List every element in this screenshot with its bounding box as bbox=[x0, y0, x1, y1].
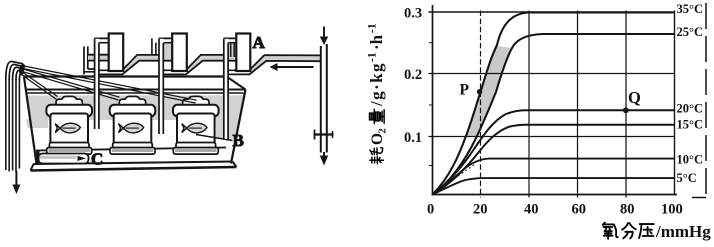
pipe entry arrow bbox=[320, 27, 328, 46]
dashed figure right border bbox=[705, 3, 707, 198]
text labels chart bbox=[404, 6, 683, 218]
glyph 量 bbox=[370, 109, 385, 123]
tank base band top bbox=[34, 162, 233, 165]
cylinder 3 bbox=[236, 34, 250, 72]
tank right wall bbox=[231, 90, 246, 164]
x axis title: 氧分压/mmHg bbox=[603, 223, 654, 239]
unit3 top connector bbox=[224, 38, 237, 42]
vertical gridline 40 bbox=[528, 11, 530, 198]
temperature labels bbox=[677, 2, 704, 185]
svg-text:O: O bbox=[369, 133, 386, 145]
tank front rim line 2 bbox=[28, 92, 244, 94]
vertical gridline 80 bbox=[625, 11, 627, 198]
glyph 压 bbox=[639, 224, 654, 238]
svg-text:35°C: 35°C bbox=[677, 2, 704, 16]
jar 1 bbox=[46, 96, 92, 154]
minor tick 0.05 bbox=[429, 165, 433, 167]
curve 25C bbox=[433, 34, 675, 195]
svg-text:2: 2 bbox=[378, 128, 389, 133]
curve 5C bbox=[433, 178, 675, 194]
vertical gridline 20 bbox=[480, 11, 482, 198]
left bend knot arcs bbox=[6, 61, 23, 80]
svg-text:60: 60 bbox=[572, 202, 587, 218]
shaded band between 35 and 25 curves bbox=[466, 46, 512, 137]
svg-text:0.2: 0.2 bbox=[404, 67, 422, 83]
svg-text:/g·kg: /g·kg bbox=[367, 62, 386, 107]
horizontal gridline 0.3 bbox=[429, 11, 675, 13]
siphon diagonal to jar 3 bbox=[22, 66, 197, 104]
jar 2 bbox=[110, 96, 156, 154]
manifold seg2 fill bbox=[187, 56, 237, 74]
tank front rim line 1 bbox=[27, 89, 246, 91]
point Q bbox=[623, 107, 629, 113]
elbow under cylinder 1 bbox=[99, 70, 123, 74]
tank wall / tube junction dark mark bbox=[36, 151, 39, 165]
svg-text:-1: -1 bbox=[367, 23, 379, 33]
svg-text:·h: ·h bbox=[367, 34, 386, 50]
siphon diagonal to jar 2 bbox=[22, 69, 120, 101]
tank water fill bbox=[26, 95, 244, 138]
inflow left arrow bbox=[270, 63, 314, 71]
knot blob bbox=[18, 63, 26, 75]
manifold seg2 bbox=[186, 55, 237, 75]
tank base band bottom bbox=[31, 167, 237, 171]
manifold seg0 fill bbox=[88, 56, 108, 61]
drop tube 2 bbox=[159, 39, 164, 134]
svg-text:0: 0 bbox=[427, 202, 434, 218]
unit1 top connector bbox=[94, 38, 108, 42]
drop tube 3 bbox=[224, 39, 229, 139]
curve 10C bbox=[433, 159, 675, 195]
dotted helper near origin bbox=[440, 164, 476, 189]
manifold seg1 fill bbox=[123, 56, 172, 74]
cylinder 2 bbox=[172, 34, 187, 72]
siphon diagonal to jar 1 bbox=[21, 72, 58, 100]
unit2 gray block bbox=[163, 43, 172, 59]
jar 3 bbox=[173, 96, 219, 154]
svg-text:20: 20 bbox=[473, 202, 488, 218]
svg-text:100: 100 bbox=[661, 202, 683, 218]
svg-text:A: A bbox=[253, 33, 266, 52]
svg-text:-1: -1 bbox=[367, 52, 379, 62]
svg-text:80: 80 bbox=[620, 202, 635, 218]
horizontal gridline 0.2 bbox=[429, 73, 675, 75]
base band left end bbox=[31, 164, 34, 171]
tank left wall bbox=[24, 77, 37, 164]
svg-text:40: 40 bbox=[524, 202, 539, 218]
svg-text:C: C bbox=[91, 150, 103, 169]
label B callout bbox=[196, 135, 233, 141]
minor tick 0.15 bbox=[429, 104, 433, 106]
right vertical pipe bbox=[321, 44, 327, 153]
unit3 short tube bbox=[231, 43, 235, 57]
y axis title group (rotated) bbox=[367, 23, 389, 163]
left down bundle bbox=[6, 79, 20, 172]
curve 35C bbox=[433, 13, 675, 195]
manifold left cap bbox=[84, 47, 94, 75]
svg-text:20°C: 20°C bbox=[677, 102, 704, 116]
vertical gridline 60 bbox=[577, 11, 579, 198]
tank inner floor line bbox=[36, 148, 226, 151]
minor tick 0.25 bbox=[429, 42, 433, 44]
svg-text:0.1: 0.1 bbox=[404, 130, 422, 146]
x axis bbox=[432, 194, 678, 196]
horizontal gridline 0.1 bbox=[429, 136, 675, 138]
svg-text:B: B bbox=[233, 131, 244, 150]
manifold seg3 fill bbox=[250, 56, 321, 74]
vertical gridline 100 / right edge bbox=[674, 11, 676, 195]
glyph 耗 bbox=[370, 148, 384, 164]
drop tube 1 bbox=[94, 39, 99, 129]
elbow under cylinder 2 bbox=[163, 70, 187, 74]
svg-text:Q: Q bbox=[628, 88, 641, 107]
unit3 gray block bbox=[228, 43, 236, 59]
manifold seg3 bbox=[249, 55, 320, 74]
point P bbox=[477, 89, 482, 94]
C outlet tube bbox=[39, 154, 89, 164]
svg-text:/mmHg: /mmHg bbox=[655, 222, 711, 241]
elbow under cylinder 3 bbox=[228, 70, 250, 74]
unit2 short tube bbox=[152, 38, 156, 55]
cylinder 1 bbox=[109, 34, 124, 72]
manifold seg0 bbox=[88, 55, 109, 61]
tank rim right slant bbox=[227, 77, 246, 90]
base band right end bbox=[233, 162, 237, 168]
svg-text:P: P bbox=[460, 82, 470, 99]
glyph 分 bbox=[622, 223, 636, 238]
svg-text:0.3: 0.3 bbox=[404, 6, 422, 22]
stopcock bbox=[314, 133, 334, 135]
curve 15C bbox=[433, 125, 675, 195]
svg-text:15°C: 15°C bbox=[677, 118, 704, 132]
curve 20C bbox=[433, 110, 675, 194]
glyph 氧 bbox=[603, 223, 618, 239]
unit2 top connector bbox=[159, 38, 173, 42]
tank back rim bbox=[24, 75, 227, 77]
outflow arrow bbox=[12, 171, 20, 194]
y axis bbox=[432, 5, 434, 195]
svg-text:5°C: 5°C bbox=[677, 171, 697, 185]
manifold seg1 bbox=[122, 55, 172, 75]
svg-text:10°C: 10°C bbox=[677, 153, 704, 167]
svg-text:25°C: 25°C bbox=[677, 25, 704, 39]
pipe exit arrow bbox=[320, 152, 328, 166]
